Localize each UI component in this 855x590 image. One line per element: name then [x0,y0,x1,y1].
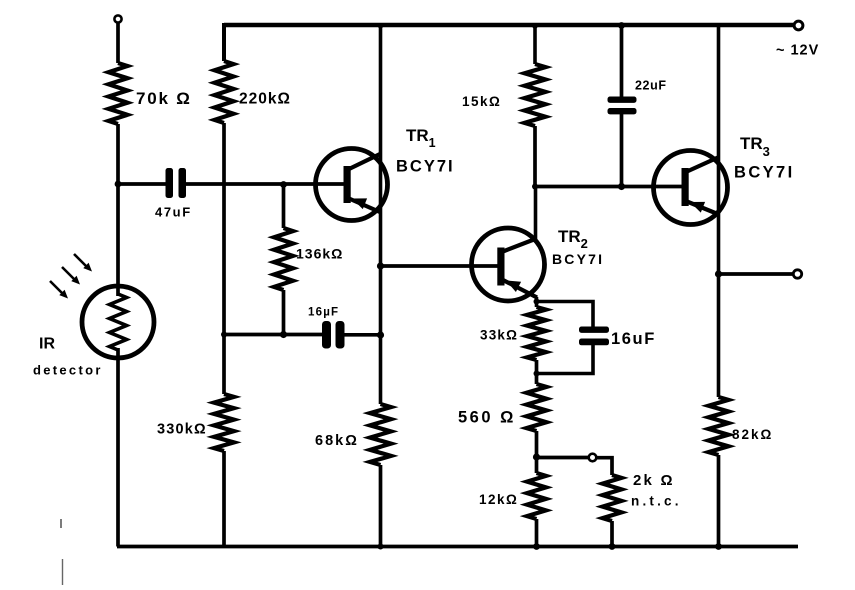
wire C 22uF to TR3 base wire [620,114,624,187]
wire TR2 emitter down [535,297,539,307]
wire R 68k to ground rail [379,465,383,547]
node junction emitter line / 16uF wire [377,331,384,338]
transistor TR2 body [472,228,545,301]
terminal tap (open circle) [589,454,597,462]
svg-text:330kΩ: 330kΩ [157,422,207,438]
wire base node to R 136k [282,185,286,229]
capacitor C 16uF series plate left [322,321,331,349]
svg-text:~ 12V: ~ 12V [776,43,819,59]
capacitor C 16uF bypass plate top [579,327,609,333]
capacitor C 47uF plate left [166,168,174,198]
node junction TR1 line / TR2 base wire [377,262,384,269]
label 82k [732,427,773,442]
svg-text:220kΩ: 220kΩ [239,91,291,108]
wire R 2k to ground rail [610,521,614,547]
transistor TR3 body [654,151,728,225]
transistor TR3 emitter arrow (PNP) [690,202,705,213]
wire R 220k to R 330k [222,123,226,394]
resistor 33k [527,307,546,360]
label 33k [480,328,518,343]
svg-text:BCY7I: BCY7I [552,251,604,267]
wire bypass top [537,302,594,327]
svg-text:n.t.c.: n.t.c. [631,494,682,509]
wire output [719,272,794,276]
label ntc [631,494,682,509]
transistor TR2 collector lead [503,239,537,252]
label -12V [776,43,819,59]
wire R 33k to R 560 [535,360,539,384]
label 2k [633,472,675,489]
label TR2 type BCY71 [552,251,604,267]
transistor TR1 body [316,149,388,221]
capacitor C 16uF bypass plate bottom [579,339,609,346]
wire TR3 base [535,185,682,189]
svg-text:detector: detector [33,363,103,378]
resistor 12k [527,473,546,519]
node junction 70k / 47uF [115,181,122,188]
IR detector internal resistor element [110,294,127,350]
node junction 136k / mid wire [280,331,287,338]
node junction emitter / bypass top [534,299,540,305]
terminal output (open circle) [793,270,801,278]
wire C 47uF to TR1 base [186,182,344,186]
node junction 33k / bypass bottom [534,371,540,377]
node supply rail / TR1 line [378,23,383,28]
wire supply rail down through TR1 to R 68k [379,25,383,404]
wire bypass bottom [537,345,594,374]
wire input node to C 47uF [118,182,166,186]
resistor 82k [709,397,729,455]
label 330k [157,422,207,438]
wire R 12k to ground rail [535,519,539,547]
label 16uF bypass [611,330,656,348]
svg-text:22uF: 22uF [635,79,667,93]
IR detector photocell body [82,286,154,358]
svg-text:47uF: 47uF [155,205,192,220]
svg-text:IR: IR [39,336,55,353]
terminal input top-left [114,15,121,22]
wire top supply rail (-12V net) [224,23,794,28]
wire terminal to R 2k ntc [597,458,613,475]
transistor TR1 emitter lead [349,199,381,213]
wire R 15k to TR3 base node [533,126,537,187]
label 136k [296,246,343,262]
terminal supply -12V (open circle) [794,21,803,30]
label 560 [458,409,516,427]
node junction 15k / TR3 base wire [532,184,538,190]
wire supply rail to R 15k [533,25,537,64]
resistor 330k [214,394,234,451]
node junction 22uF / TR3 base wire [618,183,625,190]
node junction 2k / ground [609,543,616,550]
wire R 136k to mid node [282,290,286,335]
svg-text:136kΩ: 136kΩ [296,246,343,262]
node junction 68k line / ground [378,544,384,550]
wire IR detector to ground rail [116,348,120,547]
label 12k [479,492,518,507]
resistor 2k n.t.c. [603,475,622,521]
svg-text:BCY7I: BCY7I [396,158,455,176]
label detector [33,363,103,378]
wire TR1 line to TR2 base [381,264,498,268]
wire supply rail down through TR3 to R 82k [717,25,721,397]
wire input terminal to R 70k [116,23,120,64]
light arrow 1 [74,254,92,272]
node junction 220k / mid wire [221,332,227,338]
wire R 82k to ground rail [717,455,721,547]
node junction tap [533,453,540,460]
resistor 70k [109,63,128,124]
label TR3 [740,134,770,159]
transistor TR2 emitter arrow (PNP) [506,281,521,293]
capacitor C 16uF series plate right [336,321,345,349]
label 15k [462,94,501,109]
svg-text:2k Ω: 2k Ω [633,472,675,489]
transistor TR3 collector lead [687,157,719,172]
resistor 220k [215,61,234,123]
label TR2 [558,227,588,251]
transistor TR1 collector lead [349,154,381,170]
wire mid node left segment [224,333,322,337]
transistor TR3 emitter lead [687,202,719,215]
label TR1 [406,126,436,150]
label 70k [136,89,192,108]
wire R 330k to ground rail [222,451,226,547]
svg-text:12kΩ: 12kΩ [479,492,518,507]
label 47uF [155,205,192,220]
label TR3 type BCY71 [734,164,795,182]
node junction 82k / ground [715,543,722,550]
light arrow 3 [50,281,68,299]
svg-text:16µF: 16µF [308,307,339,319]
page margin tick artifact [60,519,62,528]
wire C 16uF to TR1 emitter line [345,333,381,337]
transistor TR1 emitter arrow (PNP) [352,198,367,209]
light arrow 2 [62,267,80,285]
wire tap node to terminal [537,456,589,460]
wire R 70k to IR detector [116,124,120,296]
page margin line artifact [62,559,64,585]
resistor 15k [525,64,546,126]
wire supply rail to C 22uF [620,25,624,97]
svg-text:70k Ω: 70k Ω [136,89,192,108]
label 68k [315,433,359,449]
node junction base wire / 136k [280,181,287,188]
svg-text:33kΩ: 33kΩ [480,328,518,343]
resistor 68k [370,404,391,465]
transistor TR3 base bar [682,168,689,206]
transistor TR2 emitter lead [503,280,537,298]
svg-text:16uF: 16uF [611,330,656,348]
node junction 12k / ground [533,543,540,550]
svg-text:15kΩ: 15kΩ [462,94,501,109]
capacitor C 47uF plate right [179,168,187,198]
svg-text:68kΩ: 68kΩ [315,433,359,449]
svg-text:82kΩ: 82kΩ [732,427,773,442]
transistor TR2 base bar [497,248,504,286]
capacitor C 22uF plate bottom [608,108,637,114]
wire R 560 to tap node [535,431,539,473]
resistor 136k [274,228,293,290]
wire bottom ground rail [117,545,798,549]
transistor TR1 base bar [344,166,351,203]
label IR [39,336,55,353]
wire supply rail to R 220k [222,23,226,61]
label 16uF series [308,307,339,319]
node supply rail / 15k [532,23,538,29]
label 220k [239,91,291,108]
label TR1 type BCY71 [396,158,455,176]
resistor 560 [527,384,547,431]
node supply rail / 22uF [618,22,625,29]
node junction TR3 emitter line / output [715,270,722,277]
capacitor C 22uF plate top [608,97,637,103]
label 22uF [635,79,667,93]
svg-text:BCY7I: BCY7I [734,164,795,182]
wire TR3 base node down to TR2 collector [534,187,538,241]
svg-text:560 Ω: 560 Ω [458,409,516,427]
